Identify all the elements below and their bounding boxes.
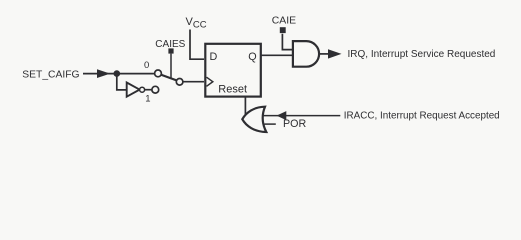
arrow IRQ output: [328, 49, 342, 58]
arrow on SET_CAIFG wire: [97, 69, 110, 78]
switch contact 1: [152, 86, 159, 93]
wire AND output: [319, 53, 329, 55]
inverter G1: [127, 83, 140, 97]
wire junction to inverter: [117, 74, 127, 90]
wire Q to AND gate: [261, 54, 294, 56]
CAIES square terminal: [168, 48, 173, 53]
clock input wedge: [207, 77, 213, 86]
wire Reset to OR gate: [244, 97, 246, 119]
wire VCC to D input: [190, 30, 204, 60]
junction dot: [114, 70, 121, 77]
wire IRACC to OR gate: [264, 115, 341, 117]
svg-text:VCC: VCC: [186, 16, 207, 31]
wire CAIE to AND gate: [282, 34, 293, 50]
svg-text:CAIE: CAIE: [272, 15, 296, 26]
AND gate U2: [293, 41, 319, 67]
svg-text:IRACC, Interrupt Request Accep: IRACC, Interrupt Request Accepted: [344, 111, 500, 122]
svg-text:1: 1: [145, 94, 150, 105]
switch common contact: [176, 79, 183, 86]
wire inverter to contact 1: [145, 89, 152, 91]
svg-text:Reset: Reset: [218, 84, 247, 96]
flip-flop U1: [205, 44, 260, 97]
CAIE square terminal: [280, 27, 286, 33]
svg-text:D: D: [210, 51, 218, 63]
svg-text:CAIES: CAIES: [155, 39, 185, 50]
wire switch common to clock input: [183, 81, 204, 83]
arrow IRACC input: [277, 111, 287, 120]
wire SET_CAIFG input: [83, 73, 155, 75]
svg-text:IRQ, Interrupt Service Request: IRQ, Interrupt Service Requested: [348, 49, 496, 60]
svg-text:0: 0: [144, 60, 149, 71]
wire CAIES to switch arm: [170, 54, 172, 78]
inverter bubble: [140, 87, 145, 92]
wire POR stub: [265, 123, 276, 125]
svg-text:POR: POR: [283, 118, 306, 130]
switch contact 0: [155, 70, 162, 77]
svg-text:Q: Q: [248, 51, 256, 63]
switch arm: [161, 75, 177, 81]
or-gate G2 (mirrored): [242, 107, 266, 132]
svg-text:SET_CAIFG: SET_CAIFG: [22, 70, 79, 81]
